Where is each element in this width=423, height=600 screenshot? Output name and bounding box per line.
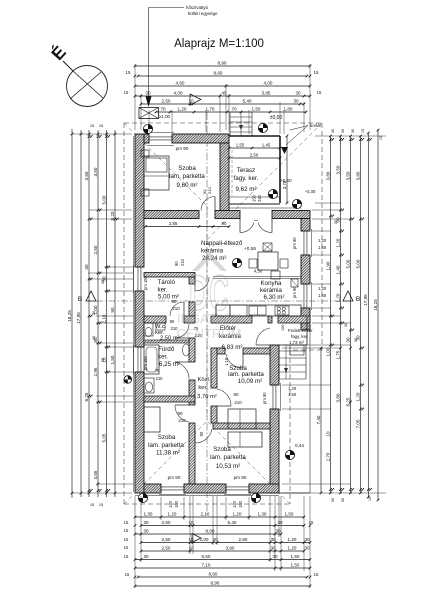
svg-text:90: 90 <box>174 261 179 266</box>
svg-text:1,30: 1,30 <box>258 512 267 517</box>
svg-text:5,00: 5,00 <box>345 259 350 268</box>
svg-text:3,50: 3,50 <box>345 171 350 180</box>
svg-text:0,44: 0,44 <box>295 443 304 448</box>
svg-text:4,50: 4,50 <box>254 269 263 274</box>
svg-text:lam. parketta: lam. parketta <box>148 442 184 449</box>
svg-text:15: 15 <box>90 502 94 507</box>
svg-text:ker.: ker. <box>198 385 208 391</box>
svg-text:pm 90: pm 90 <box>262 392 267 404</box>
svg-text:B: B <box>78 296 82 303</box>
svg-text:7,05: 7,05 <box>355 419 360 428</box>
svg-text:3,90: 3,90 <box>226 546 235 551</box>
svg-text:10: 10 <box>188 99 194 104</box>
svg-text:5,40: 5,40 <box>243 99 252 104</box>
svg-text:+0,55: +0,55 <box>244 246 256 252</box>
svg-text:1,20: 1,20 <box>335 238 340 247</box>
svg-text:10: 10 <box>325 431 330 437</box>
svg-text:INGATLAN: INGATLAN <box>177 311 241 326</box>
svg-text:90: 90 <box>170 319 175 324</box>
svg-text:Szoba: Szoba <box>178 165 196 172</box>
svg-text:pm 90: pm 90 <box>234 475 247 480</box>
svg-text:Konyha: Konyha <box>261 280 283 287</box>
svg-text:15: 15 <box>124 545 129 550</box>
svg-text:kerámia: kerámia <box>201 248 224 255</box>
svg-text:30: 30 <box>334 220 338 224</box>
svg-text:70: 70 <box>231 107 237 112</box>
svg-text:pm 90: pm 90 <box>292 286 297 298</box>
svg-text:pm 180: pm 180 <box>143 275 148 290</box>
svg-text:ker.: ker. <box>158 354 168 361</box>
svg-text:5,00: 5,00 <box>355 259 360 268</box>
svg-text:30: 30 <box>295 91 301 96</box>
svg-text:±0,00: ±0,00 <box>270 115 283 121</box>
svg-text:1,20: 1,20 <box>288 537 297 542</box>
svg-text:1,50: 1,50 <box>318 245 327 250</box>
svg-text:70: 70 <box>160 107 166 112</box>
svg-text:2,70: 2,70 <box>325 452 330 461</box>
svg-text:3,80: 3,80 <box>325 171 330 180</box>
svg-text:15: 15 <box>124 520 129 525</box>
svg-text:30: 30 <box>145 91 151 96</box>
svg-text:6,30 m²: 6,30 m² <box>264 294 285 301</box>
svg-text:2,10: 2,10 <box>101 314 106 323</box>
svg-text:30: 30 <box>344 323 348 327</box>
svg-text:30: 30 <box>341 129 345 133</box>
svg-text:30: 30 <box>345 337 350 343</box>
svg-text:15: 15 <box>124 537 129 542</box>
svg-text:8,90: 8,90 <box>218 61 227 66</box>
svg-text:3,50: 3,50 <box>335 165 340 174</box>
svg-text:1,30: 1,30 <box>144 512 153 517</box>
svg-text:3,70 m²: 3,70 m² <box>197 394 217 400</box>
svg-text:5,00 m²: 5,00 m² <box>158 294 179 301</box>
svg-text:1,50: 1,50 <box>318 293 327 298</box>
svg-text:1,20: 1,20 <box>355 392 360 401</box>
svg-text:1,20: 1,20 <box>233 512 242 517</box>
svg-text:1,80: 1,80 <box>284 107 293 112</box>
svg-text:30: 30 <box>101 280 105 284</box>
svg-text:30: 30 <box>92 336 96 340</box>
svg-text:15: 15 <box>124 90 129 95</box>
svg-text:15: 15 <box>125 572 130 577</box>
svg-text:1,50: 1,50 <box>110 355 115 364</box>
svg-text:1,20: 1,20 <box>288 386 297 391</box>
svg-text:30: 30 <box>304 537 310 542</box>
svg-text:90: 90 <box>234 392 239 397</box>
svg-text:3,50: 3,50 <box>84 171 89 180</box>
svg-text:1,73 m²: 1,73 m² <box>289 340 304 345</box>
svg-text:4,60: 4,60 <box>176 81 185 86</box>
svg-text:90: 90 <box>110 307 115 313</box>
svg-text:210: 210 <box>156 376 164 381</box>
svg-text:30: 30 <box>331 498 335 502</box>
svg-text:1,50: 1,50 <box>291 554 300 559</box>
svg-text:CENTRUM: CENTRUM <box>177 326 242 341</box>
svg-text:8,90: 8,90 <box>211 581 220 586</box>
svg-text:15: 15 <box>361 129 365 133</box>
svg-text:90: 90 <box>178 411 183 416</box>
svg-text:4,00: 4,00 <box>264 81 273 86</box>
svg-text:10,53 m²: 10,53 m² <box>216 463 240 470</box>
svg-text:+0,50: +0,50 <box>280 178 292 183</box>
svg-text:15: 15 <box>368 497 372 501</box>
svg-text:7,40: 7,40 <box>316 415 321 424</box>
svg-text:1,50: 1,50 <box>291 563 300 568</box>
svg-text:30: 30 <box>277 520 283 525</box>
svg-text:8,25: 8,25 <box>84 392 89 401</box>
svg-text:8,00: 8,00 <box>206 529 215 534</box>
svg-text:17,95: 17,95 <box>76 312 81 324</box>
svg-text:30: 30 <box>143 520 149 525</box>
svg-text:2,50: 2,50 <box>162 520 171 525</box>
svg-text:1,20: 1,20 <box>318 286 327 291</box>
svg-text:120: 120 <box>168 500 173 508</box>
svg-text:150: 150 <box>174 500 179 508</box>
svg-text:3,85: 3,85 <box>262 91 271 96</box>
svg-text:1,00: 1,00 <box>325 347 330 356</box>
svg-text:1,75: 1,75 <box>335 350 340 359</box>
svg-text:30: 30 <box>143 554 149 559</box>
svg-text:lam. parketta: lam. parketta <box>210 454 246 461</box>
svg-text:6,83 m²: 6,83 m² <box>222 344 243 351</box>
svg-text:90: 90 <box>199 431 204 436</box>
svg-text:11,38 m²: 11,38 m² <box>156 450 180 457</box>
svg-text:kültéri egysége: kültéri egysége <box>188 11 218 16</box>
svg-text:1,90: 1,90 <box>325 261 330 270</box>
svg-text:Fedett előtér: Fedett előtér <box>288 328 313 333</box>
svg-text:2,50: 2,50 <box>162 546 171 551</box>
svg-text:30: 30 <box>143 529 149 534</box>
svg-text:8,60: 8,60 <box>209 572 218 577</box>
svg-text:15: 15 <box>317 90 322 95</box>
svg-text:lam. parketta: lam. parketta <box>169 173 205 180</box>
svg-text:210: 210 <box>180 258 185 266</box>
svg-text:15: 15 <box>99 123 103 128</box>
svg-text:1,45: 1,45 <box>262 143 271 148</box>
svg-text:2,50: 2,50 <box>250 153 259 158</box>
svg-text:2,50: 2,50 <box>162 99 171 104</box>
svg-text:Tároló: Tároló <box>158 279 176 286</box>
svg-text:15: 15 <box>99 502 103 507</box>
svg-text:9,60 m²: 9,60 m² <box>177 182 198 189</box>
svg-text:15: 15 <box>379 136 383 140</box>
svg-text:30: 30 <box>275 529 281 534</box>
svg-text:6,25 m²: 6,25 m² <box>159 361 180 368</box>
svg-text:lam. parketta: lam. parketta <box>228 371 264 378</box>
svg-text:1,20: 1,20 <box>288 546 297 551</box>
svg-text:1,40: 1,40 <box>335 265 340 274</box>
svg-text:1,20: 1,20 <box>318 238 327 243</box>
svg-text:1,20: 1,20 <box>168 512 177 517</box>
svg-text:2,10: 2,10 <box>201 512 210 517</box>
svg-text:korlát: korlát <box>310 123 322 128</box>
svg-text:30: 30 <box>331 129 335 133</box>
svg-text:3,50: 3,50 <box>93 167 98 176</box>
svg-text:120: 120 <box>232 500 237 508</box>
svg-text:240: 240 <box>257 194 262 202</box>
svg-text:2,50: 2,50 <box>162 537 171 542</box>
svg-text:-0,30: -0,30 <box>305 189 316 194</box>
svg-text:Fürdő: Fürdő <box>158 346 175 353</box>
svg-text:≥1,00: ≥1,00 <box>159 114 171 119</box>
svg-text:Közl.: Közl. <box>198 377 211 383</box>
svg-text:150: 150 <box>238 500 243 508</box>
svg-text:1,70: 1,70 <box>206 107 215 112</box>
svg-text:Terasz: Terasz <box>237 167 255 174</box>
svg-text:1,50: 1,50 <box>252 107 261 112</box>
svg-text:3,80: 3,80 <box>335 393 340 402</box>
svg-text:210: 210 <box>207 187 212 194</box>
svg-text:pm 90: pm 90 <box>176 146 189 151</box>
svg-text:1,18: 1,18 <box>224 357 229 366</box>
svg-text:30: 30 <box>351 129 355 133</box>
svg-text:2,85: 2,85 <box>169 221 178 226</box>
svg-text:9,62 m²: 9,62 m² <box>236 186 257 193</box>
svg-text:15: 15 <box>90 123 94 128</box>
svg-text:fagy. ker.: fagy. ker. <box>234 175 259 182</box>
svg-text:17,95: 17,95 <box>363 294 368 306</box>
svg-text:Szoba: Szoba <box>158 434 176 441</box>
svg-text:15: 15 <box>314 572 319 577</box>
svg-text:5,00: 5,00 <box>101 195 106 204</box>
svg-text:15: 15 <box>126 70 131 75</box>
svg-text:5,40: 5,40 <box>228 520 237 525</box>
svg-text:30: 30 <box>92 311 96 315</box>
svg-text:15: 15 <box>314 70 319 75</box>
svg-text:5,05: 5,05 <box>101 433 106 442</box>
svg-text:hőszivattyú: hőszivattyú <box>186 5 209 10</box>
svg-text:1,20: 1,20 <box>335 293 340 302</box>
svg-text:4,00: 4,00 <box>174 91 183 96</box>
svg-text:1,20: 1,20 <box>178 107 187 112</box>
svg-text:150: 150 <box>252 194 257 202</box>
svg-text:Alaprajz M=1:100: Alaprajz M=1:100 <box>174 38 264 50</box>
svg-text:B: B <box>356 296 360 303</box>
svg-text:1,50: 1,50 <box>288 392 297 397</box>
svg-text:30: 30 <box>84 264 89 270</box>
svg-text:1,50: 1,50 <box>285 512 294 517</box>
svg-text:30: 30 <box>101 358 105 362</box>
svg-text:6,50: 6,50 <box>202 554 211 559</box>
svg-text:30: 30 <box>293 99 299 104</box>
svg-text:kerámia: kerámia <box>260 287 283 294</box>
svg-text:30: 30 <box>354 338 358 342</box>
svg-text:7,10: 7,10 <box>202 563 211 568</box>
svg-text:15: 15 <box>124 528 129 533</box>
svg-text:8,25: 8,25 <box>345 397 350 406</box>
svg-text:30: 30 <box>341 498 345 502</box>
svg-text:3,80: 3,80 <box>355 171 360 180</box>
svg-text:210: 210 <box>178 418 186 423</box>
svg-text:30: 30 <box>304 546 310 551</box>
svg-text:pm 90: pm 90 <box>292 237 297 249</box>
svg-text:4,55: 4,55 <box>93 470 98 479</box>
svg-text:Nappali-étkező: Nappali-étkező <box>201 240 243 247</box>
svg-text:210: 210 <box>234 400 242 405</box>
svg-text:ker.: ker. <box>158 287 168 294</box>
svg-text:90: 90 <box>222 221 227 226</box>
svg-text:2,95: 2,95 <box>93 367 98 376</box>
svg-text:2,50: 2,50 <box>93 245 98 254</box>
svg-text:10,09 m²: 10,09 m² <box>238 378 262 385</box>
svg-text:100: 100 <box>281 325 285 331</box>
svg-text:18,25: 18,25 <box>67 310 72 322</box>
svg-text:15: 15 <box>124 554 129 559</box>
svg-text:1,55: 1,55 <box>236 143 245 148</box>
svg-text:18,25: 18,25 <box>373 299 378 311</box>
svg-text:fagy. ker: fagy. ker <box>291 334 308 339</box>
svg-text:2,80: 2,80 <box>239 537 248 542</box>
svg-text:pm 90: pm 90 <box>168 475 181 480</box>
svg-text:8,60: 8,60 <box>214 71 223 76</box>
